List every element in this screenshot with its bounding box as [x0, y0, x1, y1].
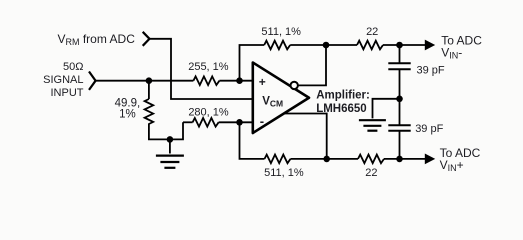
node: top cap — [396, 42, 403, 49]
resistor 49.9 1% (vertical) — [145, 99, 154, 127]
svg-text:SIGNAL: SIGNAL — [43, 74, 83, 86]
node: cap midpoint — [396, 96, 403, 103]
wire: 255 to op-amp +IN — [219, 80, 252, 82]
wire: main input line — [96, 80, 194, 82]
node: ground node — [167, 136, 174, 143]
svg-text:511, 1%: 511, 1% — [261, 26, 301, 38]
node: feedback/-IN — [236, 119, 243, 126]
capacitor C2 39 pF (bottom) — [388, 125, 410, 131]
svg-text:INPUT: INPUT — [51, 87, 84, 99]
svg-text:Amplifier:: Amplifier: — [316, 90, 370, 102]
svg-text:39 pF: 39 pF — [417, 64, 445, 76]
node: bottom cap — [396, 156, 403, 163]
svg-text:LMH6650: LMH6650 — [316, 103, 367, 115]
wire: feedback tap up from +IN node — [240, 45, 265, 81]
svg-text:22: 22 — [366, 26, 378, 38]
wire: feedback tap down from -IN node — [240, 122, 265, 159]
svg-text:511, 1%: 511, 1% — [264, 167, 304, 179]
svg-text:255, 1%: 255, 1% — [188, 61, 229, 73]
ground symbol GND1 — [156, 156, 184, 168]
capacitor C1 39 pF (top) — [388, 63, 410, 69]
wire: VRM line down to VCM pin — [150, 39, 253, 99]
wire: top row to 22 — [290, 44, 357, 46]
node: top output — [323, 42, 330, 49]
inverting output bubble — [291, 82, 298, 89]
ground symbol GND2 — [359, 120, 386, 131]
svg-text:280, 1%: 280, 1% — [188, 107, 229, 119]
wire: bottom cap to bottom row — [399, 131, 401, 159]
wire: 49.9 top lead — [148, 81, 150, 99]
svg-text:+: + — [259, 75, 266, 89]
wire: non-inverting output down to bottom row — [284, 114, 327, 159]
op-amp U1 LMH6650 — [253, 63, 309, 134]
wire: ground stub below node — [169, 139, 171, 153]
output arrow VIN- — [425, 40, 435, 51]
resistor 22 (top) — [357, 41, 383, 50]
svg-text:-: - — [260, 113, 264, 128]
node: feedback/+IN — [236, 77, 243, 84]
resistor 511 1% (bottom feedback) — [265, 155, 291, 164]
resistor 255 1% — [193, 76, 219, 85]
wire: mid node to right ground — [373, 99, 400, 119]
wire: 280 to -IN — [219, 121, 253, 123]
svg-text:50Ω: 50Ω — [63, 61, 83, 73]
wire: top row to output arrow — [383, 44, 425, 46]
svg-text:1%: 1% — [119, 108, 136, 120]
svg-text:22: 22 — [365, 167, 377, 179]
wire: inverted output from bubble up to top row — [298, 45, 326, 85]
output arrow VIN+ — [425, 154, 435, 165]
resistor 22 (bottom) — [358, 155, 384, 164]
wire: 49.9 bottom lead to ground node — [149, 122, 183, 139]
wire: bottom row to 22 — [291, 158, 359, 160]
wire: 280 row into op-amp -IN — [183, 121, 193, 123]
wire: between caps — [399, 69, 401, 125]
input terminal chevron J1 (50 ohm signal input) — [89, 72, 96, 90]
input terminal chevron J2 (VRM from ADC) — [143, 32, 150, 46]
svg-text:39 pF: 39 pF — [415, 123, 443, 135]
wire: bottom row to output arrow — [384, 158, 425, 160]
node: bottom output — [323, 156, 330, 163]
resistor 280 1% — [193, 118, 219, 127]
node: +IN junction — [146, 77, 153, 84]
resistor 511 1% (top feedback) — [264, 41, 290, 50]
wire: top cap lead — [399, 45, 401, 63]
